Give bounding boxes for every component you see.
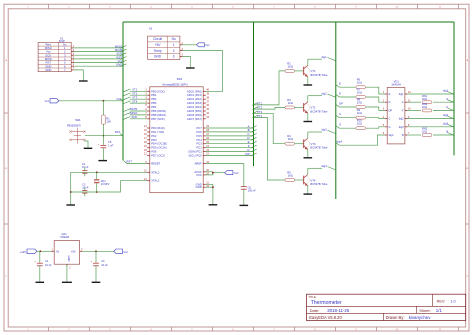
capacitor C5 [98, 136, 107, 161]
svg-text:1KΩ: 1KΩ [288, 174, 293, 178]
svg-text:PB3: PB3 [151, 101, 157, 105]
MCU DD1 body [150, 87, 203, 193]
wire base VT2 [254, 107, 286, 109]
label R5 [287, 170, 293, 177]
svg-text:PC5: PC5 [196, 134, 202, 138]
svg-text:10K: 10K [106, 120, 111, 124]
ground K1 [79, 80, 88, 82]
svg-text:RST: RST [126, 160, 132, 164]
svg-text:PD3: PD3 [151, 138, 157, 142]
wire VD1 B net [407, 127, 453, 137]
label R2 [287, 61, 293, 68]
svg-text:10 nF: 10 nF [82, 187, 89, 190]
resistor R6 [357, 78, 362, 85]
power flag Vcc out [114, 249, 129, 254]
label R4 [287, 134, 293, 141]
svg-text:2018-11-25: 2018-11-25 [327, 308, 350, 313]
svg-text:1KΩ: 1KΩ [422, 130, 427, 134]
ground VT3 [304, 157, 313, 159]
svg-text:PB1: PB1 [151, 93, 157, 97]
junction Vcc/R1 [103, 100, 105, 102]
title block title value [311, 300, 342, 306]
svg-text:GND: GND [116, 63, 122, 67]
wire segment D to VD1 [336, 91, 385, 102]
svg-text:PD7 (OC2): PD7 (OC2) [151, 154, 165, 158]
svg-text:ADC5 (PA5): ADC5 (PA5) [187, 109, 202, 113]
wire segment C to VD1 [336, 112, 385, 119]
svg-text:ADC6 (PA6): ADC6 (PA6) [187, 113, 202, 117]
svg-text:PB7 (SCK): PB7 (SCK) [151, 117, 165, 121]
label VT4 [310, 178, 328, 186]
svg-text:Sheet:: Sheet: [419, 308, 431, 313]
svg-text:PB2: PB2 [151, 97, 157, 101]
capacitor C2 [82, 167, 87, 176]
title block Sheet value [436, 308, 443, 313]
svg-text:DP: DP [389, 108, 393, 112]
wire base VT4 [254, 118, 286, 181]
resistor R7 [357, 87, 362, 94]
wire A2 Temp to ADC0 [182, 51, 222, 92]
wire VD1 A net [407, 94, 453, 104]
label C5 [108, 140, 114, 147]
svg-text:ADC3 (PA3): ADC3 (PA3) [187, 101, 202, 105]
svg-text:VT1: VT1 [310, 69, 316, 73]
ground DA1 [62, 281, 72, 283]
wire VD1 F net [407, 102, 453, 112]
svg-text:PB5 (MOSI): PB5 (MOSI) [151, 109, 166, 113]
svg-text:(SDA) PC1: (SDA) PC1 [188, 150, 202, 154]
display VD1 pins [383, 90, 412, 137]
wire segment E to VD1 [336, 82, 385, 94]
svg-text:Drawn By:: Drawn By: [386, 315, 405, 320]
svg-text:PB0 (XCK): PB0 (XCK) [151, 89, 165, 93]
svg-text:A2: A2 [149, 26, 153, 30]
svg-text:1KΩ: 1KΩ [357, 122, 362, 126]
connector A2 table [148, 36, 180, 59]
svg-text:dig4: dig4 [321, 164, 327, 168]
junction MCU GND [212, 186, 214, 188]
svg-text:+5V: +5V [71, 249, 76, 253]
svg-text:dig2: dig2 [321, 91, 327, 95]
capacitor C6 [241, 187, 247, 205]
wire DA1 gnd [66, 264, 68, 282]
wires MCU PB pins with net labels [124, 88, 148, 120]
svg-text:dig1: dig1 [399, 92, 404, 96]
title block Date label [310, 308, 320, 313]
resistor R4 [285, 142, 304, 145]
wire MCU GND to ground [206, 184, 213, 204]
resistor R5 [285, 179, 304, 182]
switch SW1 [69, 128, 103, 144]
wire +12V to DA1 [37, 250, 52, 252]
label VT3 [310, 142, 328, 150]
wire collector dig1 [308, 55, 336, 61]
wire collector dig2 [308, 91, 336, 97]
label RST at rail bottom [123, 160, 132, 164]
svg-text:BC547B Tube: BC547B Tube [310, 182, 328, 186]
title block DrawnBy label [386, 315, 405, 320]
wire VD1 dig1 net [407, 89, 453, 94]
label SW1 part [67, 124, 81, 127]
wire K1 pin7 to ground [74, 70, 84, 81]
svg-text:dig4: dig4 [389, 133, 394, 137]
svg-text:100 nF: 100 nF [248, 189, 256, 193]
title block DrawnBy value [409, 315, 432, 320]
svg-text:B: B [446, 130, 448, 134]
svg-text:Vcc: Vcc [116, 97, 121, 101]
label DA1 part [60, 235, 69, 239]
svg-text:PD2: PD2 [151, 134, 157, 138]
svg-text:PD4 (OC1B): PD4 (OC1B) [151, 142, 167, 146]
svg-text:dig2: dig2 [399, 117, 404, 121]
capacitor C4 [90, 251, 98, 281]
svg-text:Vcc: Vcc [123, 250, 128, 254]
connector K1 pin stubs and numbers [71, 44, 75, 70]
ground VT2 [304, 121, 313, 123]
svg-text:1KΩ: 1KΩ [357, 81, 362, 85]
label C6 [248, 185, 256, 192]
svg-text:A: A [402, 100, 404, 104]
wire A2 GND down [182, 56, 190, 67]
svg-text:1KΩ: 1KΩ [288, 101, 293, 105]
svg-text:Temp: Temp [154, 49, 162, 53]
svg-text:DP: DP [245, 152, 249, 156]
capacitor C3 [82, 187, 87, 196]
svg-text:D: D [339, 91, 341, 95]
connector K1 ICSP table [38, 42, 71, 72]
wire segment DP to VD1 [336, 101, 385, 110]
svg-text:D: D [389, 100, 391, 104]
svg-text:Circuit: Circuit [153, 37, 162, 41]
junction XTAL2/C2 [96, 171, 98, 173]
svg-text:dig3: dig3 [321, 128, 327, 132]
svg-text:C: C [389, 117, 391, 121]
wire main top rail [123, 21, 454, 23]
svg-text:dig3: dig3 [443, 121, 449, 125]
svg-text:PB0505067I: PB0505067I [67, 124, 81, 127]
svg-text:ADC4 (PA4): ADC4 (PA4) [187, 105, 202, 109]
svg-text:1KΩ: 1KΩ [288, 137, 293, 141]
junction XTAL1/C3 [96, 191, 98, 193]
wire A2 +5V to Vcc flag [182, 44, 197, 46]
wire vertical rail mid (segment bus) [253, 22, 255, 166]
label DD1 part name [162, 83, 188, 87]
svg-text:(SCL) PC0: (SCL) PC0 [189, 154, 203, 158]
power flag Vcc at AVCC [225, 171, 240, 175]
title block frame [307, 294, 466, 320]
svg-text:BC547B Tube: BC547B Tube [310, 146, 328, 150]
label R1 [106, 116, 111, 123]
svg-text:2: 2 [173, 49, 175, 53]
svg-text:AREF: AREF [194, 162, 202, 166]
svg-text:1KΩ: 1KΩ [288, 64, 293, 68]
svg-text:ADC1 (PA1): ADC1 (PA1) [187, 93, 202, 97]
transistor VT1 [302, 59, 310, 84]
wire Vcc net to rail [59, 97, 123, 101]
svg-text:ADC7 (PA7): ADC7 (PA7) [187, 117, 202, 121]
svg-text:dig2: dig2 [443, 113, 449, 117]
label VD1 part [392, 82, 402, 86]
svg-text:GND: GND [154, 55, 162, 59]
svg-text:1KΩ: 1KΩ [357, 111, 362, 115]
svg-text:F: F [446, 105, 448, 109]
svg-text:SCK: SCK [132, 115, 138, 119]
svg-text:PC3: PC3 [196, 142, 202, 146]
wire VD1 dig2 net [407, 113, 453, 118]
capacitor C1 [34, 251, 42, 281]
wire RESET pin [127, 163, 147, 165]
title block REV [437, 299, 456, 303]
wire base VT1 [254, 71, 286, 105]
wire VD1 dig3 net [407, 121, 453, 126]
svg-text:VT3: VT3 [310, 142, 316, 146]
svg-text:dig3: dig3 [399, 125, 404, 129]
transistor VT2 [302, 96, 310, 121]
svg-text:E: E [389, 92, 391, 96]
svg-text:16 MHz: 16 MHz [101, 183, 110, 186]
wire collector dig4 [308, 164, 336, 170]
svg-text:GND: GND [45, 68, 51, 72]
label C4 [101, 259, 108, 267]
svg-text:1 uF: 1 uF [108, 143, 114, 147]
svg-text:PC2: PC2 [196, 146, 202, 150]
wire vertical rail right [453, 22, 455, 155]
svg-text:E: E [339, 82, 341, 86]
label K1 refdes [60, 37, 64, 41]
label DD1 refdes [177, 77, 183, 81]
label A2 refdes [149, 26, 153, 30]
label C2 [82, 163, 89, 169]
svg-text:Vcc: Vcc [45, 99, 50, 103]
svg-text:VCC: VCC [196, 173, 202, 177]
svg-text:1/1: 1/1 [436, 308, 443, 313]
svg-text:IN: IN [56, 249, 59, 253]
svg-text:XTAL1: XTAL1 [151, 179, 160, 183]
label VT2 [310, 106, 328, 114]
svg-text:TITLE:: TITLE: [308, 295, 316, 299]
svg-text:EasyEDA V5.8.20: EasyEDA V5.8.20 [309, 315, 342, 320]
transistor VT3 [302, 132, 310, 157]
svg-text:PD1 (TxD): PD1 (TxD) [151, 130, 164, 134]
label R3 [287, 98, 293, 105]
svg-text:1KΩ: 1KΩ [422, 105, 427, 109]
wire AREF to C6 [206, 164, 244, 187]
ground VT1 [304, 84, 313, 86]
svg-text:ADC2 (PA2): ADC2 (PA2) [187, 97, 202, 101]
svg-text:DD1: DD1 [177, 77, 183, 81]
resistor R8 [357, 97, 362, 104]
ground C6 [240, 204, 249, 206]
connector A2 pin stubs and numbers [180, 41, 184, 57]
svg-text:PC7: PC7 [196, 126, 202, 130]
label C3 [82, 184, 89, 190]
wire segment G to VD1 [336, 123, 385, 130]
svg-text:PD5 (OC1A): PD5 (OC1A) [151, 146, 167, 150]
label VD1 refdes [394, 79, 400, 83]
svg-text:Vcc: Vcc [234, 171, 239, 175]
junction R1/SW1/C5 [103, 135, 105, 137]
svg-text:10 uF: 10 uF [101, 263, 108, 267]
svg-text:PB6 (MISO): PB6 (MISO) [151, 113, 166, 117]
svg-text:dig1: dig1 [321, 55, 327, 59]
ground MCU [209, 204, 218, 206]
label VT1 [310, 69, 328, 77]
svg-text:C: C [339, 112, 341, 116]
svg-text:Vcc: Vcc [205, 43, 210, 47]
power flag Vcc at A2 [197, 43, 211, 47]
svg-text:+5V: +5V [155, 43, 162, 47]
svg-text:C1: C1 [45, 259, 49, 263]
svg-text:BC547B Tube: BC547B Tube [310, 73, 328, 77]
svg-text:PD0 (RxD): PD0 (RxD) [151, 126, 164, 130]
svg-text:+12V: +12V [20, 250, 27, 254]
ground C5 [98, 160, 107, 162]
resistor R3 [285, 106, 304, 109]
svg-text:PD6: PD6 [151, 150, 157, 154]
svg-text:No: No [172, 37, 176, 41]
resistor R2 [285, 70, 304, 73]
MCU DD1 right pins [187, 88, 210, 190]
svg-text:1: 1 [173, 43, 175, 47]
title block EasyEDA [309, 315, 342, 320]
net labels VT1-VT4 on rail [252, 102, 262, 119]
svg-text:Thermometer: Thermometer [311, 300, 342, 306]
junction AVCC [212, 172, 214, 174]
svg-text:1.0: 1.0 [450, 299, 455, 303]
ground C4 [92, 281, 101, 283]
label C1 [45, 259, 52, 267]
resistor R1 [101, 101, 105, 136]
wire DA1 out [82, 250, 114, 252]
svg-text:ICSP: ICSP [59, 39, 65, 43]
svg-text:dig4: dig4 [337, 140, 343, 144]
ground crystal [66, 204, 75, 206]
svg-text:DP: DP [339, 101, 343, 105]
transistor VT4 [302, 168, 310, 193]
resistor R9 [357, 108, 362, 115]
wire vertical rail left (net RST) [122, 22, 124, 160]
svg-text:G: G [339, 123, 341, 127]
ground A2 [186, 67, 195, 69]
svg-text:A: A [446, 97, 448, 101]
svg-text:G: G [389, 125, 391, 129]
svg-text:1KΩ: 1KΩ [422, 97, 427, 101]
regulator DA1 body [52, 241, 82, 267]
wire XTAL2 net [71, 171, 148, 173]
svg-text:RST: RST [115, 130, 121, 134]
svg-text:Atmega8535-16PU: Atmega8535-16PU [162, 83, 188, 87]
svg-text:B: B [402, 133, 404, 137]
wire AVCC VCC to Vcc flag [206, 172, 225, 175]
svg-text:5641AH: 5641AH [392, 82, 402, 86]
label DA1 refdes [62, 232, 68, 236]
svg-text:SW1: SW1 [75, 118, 81, 122]
svg-text:XTAL2: XTAL2 [151, 170, 160, 174]
wire SW1 RST to rail [103, 134, 122, 136]
svg-text:1KΩ: 1KΩ [357, 91, 362, 95]
svg-text:VT2: VT2 [310, 106, 316, 110]
wire dig4 to VD1 [336, 135, 385, 145]
power flag +12V [20, 249, 37, 254]
svg-text:GND: GND [67, 256, 71, 262]
svg-text:dig1: dig1 [443, 89, 449, 93]
svg-text:VT4: VT4 [132, 99, 138, 103]
display VD1 body [387, 88, 405, 144]
MCU DD1 left pins [144, 88, 167, 183]
ground C1 [36, 281, 45, 283]
label RST at SW1 [115, 130, 121, 134]
junction C4 [95, 250, 97, 252]
svg-text:C4: C4 [101, 259, 105, 263]
junction XTAL1 left [70, 191, 72, 193]
title block TITLE label [308, 295, 316, 299]
svg-text:kivanychev: kivanychev [409, 315, 432, 320]
ground SW1 [84, 147, 93, 149]
wire vertical rail digit bus [335, 22, 337, 199]
svg-text:10 nF: 10 nF [82, 166, 89, 169]
wire XTAL1 net [71, 181, 148, 192]
title block Date value [327, 308, 350, 313]
svg-text:ADC0 (PA0): ADC0 (PA0) [187, 89, 202, 93]
svg-text:GND: GND [196, 185, 202, 189]
svg-text:VT4: VT4 [310, 178, 316, 182]
svg-text:Date:: Date: [310, 308, 320, 313]
svg-text:KREN5: KREN5 [60, 235, 69, 239]
power flag Vcc left [45, 99, 59, 103]
wire SW1 to ground [85, 141, 89, 148]
svg-text:BC547B Tube: BC547B Tube [310, 109, 328, 113]
title block Sheet label [419, 308, 431, 313]
svg-text:REV:: REV: [437, 299, 446, 303]
svg-text:PC6: PC6 [196, 130, 202, 134]
wires K1 to rail with net labels [74, 44, 127, 66]
wire crystal left leg [70, 172, 72, 204]
svg-text:1KΩ: 1KΩ [357, 101, 362, 105]
resistor R10 [357, 119, 362, 126]
wires MCU PC pins to segment rail [206, 124, 257, 156]
ground VT4 [304, 193, 313, 195]
label ZQ1 [101, 180, 110, 186]
junction C1 [39, 250, 41, 252]
svg-text:3: 3 [173, 55, 175, 59]
label SW1 [75, 118, 81, 122]
crystal ZQ1 [94, 172, 100, 192]
svg-text:10 uF: 10 uF [45, 263, 52, 267]
svg-text:PC4: PC4 [196, 138, 202, 142]
svg-text:PB4: PB4 [151, 105, 157, 109]
wire base VT3 [254, 113, 286, 143]
regulator DA1 pin numbers [51, 247, 83, 269]
label K1 ICSP [59, 39, 65, 43]
wire collector dig3 [308, 128, 336, 134]
svg-text:RESET: RESET [151, 162, 160, 166]
